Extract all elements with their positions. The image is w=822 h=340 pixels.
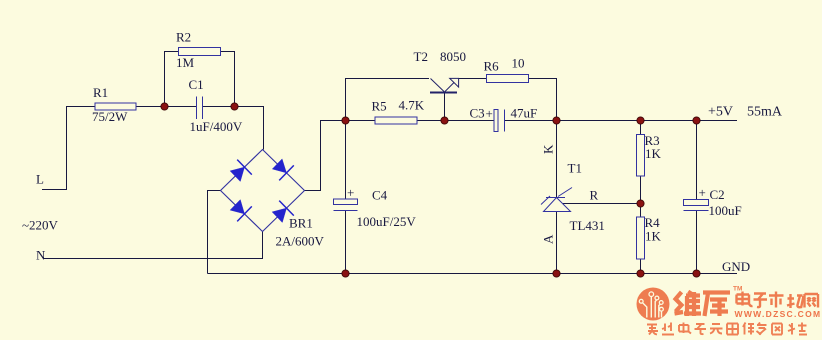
resistor R5 bbox=[375, 117, 417, 124]
svg-text:C2: C2 bbox=[710, 187, 725, 202]
watermark slogan char yi bbox=[772, 324, 782, 335]
TL431 T1 cathode bar bbox=[546, 197, 565, 199]
svg-text:+: + bbox=[486, 106, 493, 121]
wire TL431 ref to divider node bbox=[563, 203, 641, 205]
svg-text:+: + bbox=[699, 185, 706, 200]
watermark slogan char zi bbox=[695, 324, 707, 334]
svg-text:100uF: 100uF bbox=[709, 203, 742, 218]
svg-text:C4: C4 bbox=[372, 188, 388, 203]
diode D1 upper-left bbox=[230, 160, 252, 182]
resistor R4 bbox=[637, 217, 645, 259]
svg-text:R1: R1 bbox=[93, 85, 108, 100]
wire C4 bottom lead bbox=[345, 211, 347, 274]
svg-text:WWW.DZSC.COM: WWW.DZSC.COM bbox=[735, 309, 822, 319]
wire emitter to R6 bbox=[459, 78, 487, 80]
svg-text:100uF/25V: 100uF/25V bbox=[357, 214, 417, 229]
svg-text:GND: GND bbox=[722, 259, 750, 274]
transistor T2 collector diagonal bbox=[431, 79, 445, 92]
wire bridge right vertex to plus node bbox=[305, 121, 346, 191]
svg-text:1K: 1K bbox=[645, 229, 662, 244]
svg-text:TM: TM bbox=[733, 286, 742, 293]
svg-text:TL431: TL431 bbox=[570, 218, 605, 233]
watermark slogan char ye bbox=[662, 323, 674, 335]
wire output rail to +5V bbox=[557, 120, 738, 122]
svg-text:1K: 1K bbox=[645, 146, 662, 161]
transistor T2 emitter arrow open bbox=[450, 78, 459, 87]
svg-text:K: K bbox=[541, 144, 556, 154]
wire R5 to base node to C3 bbox=[417, 120, 494, 122]
watermark chang glyph bbox=[787, 294, 804, 308]
svg-text:A: A bbox=[541, 234, 556, 244]
watermark slogan char jiao bbox=[757, 323, 767, 335]
svg-text:T2: T2 bbox=[414, 49, 428, 64]
watermark ku glyph bbox=[703, 293, 730, 317]
svg-text:N: N bbox=[36, 248, 46, 263]
wire C2 bottom lead bbox=[696, 211, 698, 274]
capacitor C3 plate right bbox=[504, 110, 506, 132]
svg-text:~220V: ~220V bbox=[22, 218, 59, 233]
svg-text:BR1: BR1 bbox=[289, 216, 313, 231]
wire L stub bbox=[42, 107, 95, 190]
svg-text:R6: R6 bbox=[484, 59, 500, 74]
svg-text:L: L bbox=[36, 172, 44, 187]
wire R6 to output node bbox=[529, 79, 557, 121]
wire N to bridge bottom vertex bbox=[44, 232, 263, 259]
node dot C2 bottom bbox=[693, 270, 700, 277]
node dot C4 bottom bbox=[342, 270, 349, 277]
svg-text:1uF/400V: 1uF/400V bbox=[190, 119, 243, 134]
wire plus node up to T2 collector bbox=[346, 79, 430, 121]
watermark slogan char qi bbox=[727, 324, 738, 335]
svg-text:R: R bbox=[590, 188, 599, 203]
capacitor C1 plate left bbox=[196, 97, 198, 120]
watermark wang glyph bbox=[805, 294, 819, 308]
watermark dian glyph bbox=[737, 292, 753, 307]
svg-text:T1: T1 bbox=[568, 161, 582, 176]
wire C2 top lead bbox=[696, 121, 698, 200]
node dot R3 R4 ref bbox=[637, 200, 644, 207]
svg-text:C1: C1 bbox=[189, 77, 204, 92]
watermark slogan char wang bbox=[788, 323, 795, 335]
capacitor C1 plate right bbox=[202, 97, 204, 120]
wire ground bus bbox=[208, 273, 738, 275]
watermark slogan char zhuan bbox=[647, 325, 658, 335]
svg-text:75/2W: 75/2W bbox=[92, 109, 128, 124]
svg-text:47uF: 47uF bbox=[511, 106, 538, 121]
watermark wei glyph bbox=[675, 291, 702, 316]
wire R3 top lead bbox=[640, 121, 642, 135]
diode D3 lower-left bbox=[230, 200, 252, 222]
wire R4 bottom lead bbox=[640, 259, 642, 274]
wire node A up to R2 bbox=[165, 52, 179, 107]
wire R1 to node A bbox=[136, 106, 196, 108]
resistor R1 bbox=[95, 103, 136, 110]
wire R3 bottom lead bbox=[640, 176, 642, 204]
resistor R6 bbox=[487, 75, 529, 83]
node dot R1 R2 C1 bbox=[161, 103, 168, 110]
wire bridge left vertex to ground bus bbox=[208, 191, 221, 274]
svg-text:+5V: +5V bbox=[708, 105, 733, 120]
transistor T2 base bar bbox=[430, 92, 457, 94]
svg-text:10: 10 bbox=[512, 56, 525, 71]
watermark zi glyph bbox=[754, 294, 768, 308]
svg-text:8050: 8050 bbox=[440, 49, 466, 64]
wire R5 left lead bbox=[346, 120, 376, 122]
wire T2 base lead bbox=[444, 93, 446, 121]
wire R2 right down to node B bbox=[221, 52, 235, 107]
transistor T2 emitter diagonal bbox=[445, 83, 455, 93]
node dot R4 bottom bbox=[637, 270, 644, 277]
node dot C3 R6 K rail bbox=[553, 117, 560, 124]
wire C1 to node B to bridge top bbox=[203, 107, 264, 150]
capacitor C3 plate left box bbox=[494, 110, 498, 132]
resistor R2 bbox=[179, 48, 221, 56]
bridge BR1 diamond edges bbox=[221, 150, 305, 232]
capacitor C2 plate bottom bbox=[684, 210, 709, 212]
capacitor C4 plate top box bbox=[334, 199, 358, 205]
watermark slogan char dian bbox=[679, 323, 691, 334]
TL431 T1 triangle bbox=[544, 198, 571, 212]
diode D4 lower-right bbox=[272, 201, 294, 223]
TL431 T1 bar tick right bbox=[558, 188, 572, 197]
wire C4 top lead bbox=[345, 121, 347, 200]
watermark logo circle bbox=[637, 288, 670, 321]
svg-text:1M: 1M bbox=[176, 55, 195, 70]
watermark shi glyph bbox=[769, 292, 784, 308]
node dot bridge plus C4 R5 bbox=[342, 117, 349, 124]
capacitor C2 plate top box bbox=[684, 200, 709, 206]
node dot C2 top bbox=[693, 117, 700, 124]
wire C3 to output node bbox=[505, 120, 557, 122]
node dot R3 top bbox=[637, 117, 644, 124]
wire R4 top lead bbox=[640, 204, 642, 218]
resistor R3 bbox=[637, 135, 645, 177]
svg-text:4.7K: 4.7K bbox=[399, 98, 425, 113]
diode D2 upper-right bbox=[272, 159, 294, 181]
watermark slogan char yuan bbox=[710, 324, 723, 334]
svg-text:C3: C3 bbox=[470, 106, 485, 121]
watermark slogan char zhan bbox=[798, 323, 807, 335]
node dot TL431 anode bottom bbox=[553, 270, 560, 277]
svg-text:R2: R2 bbox=[176, 30, 191, 45]
svg-text:R5: R5 bbox=[372, 99, 387, 114]
TL431 T1 bar tick left bbox=[541, 196, 550, 205]
svg-text:+: + bbox=[347, 185, 354, 200]
wire TL431 anode lead bbox=[556, 212, 558, 274]
node dot R5 T2base C3 bbox=[441, 117, 448, 124]
capacitor C4 plate bottom bbox=[334, 210, 358, 212]
svg-text:55mA: 55mA bbox=[747, 105, 783, 120]
node dot C1 R2 bridge top bbox=[231, 103, 238, 110]
watermark slogan char jian bbox=[743, 323, 754, 335]
svg-text:2A/600V: 2A/600V bbox=[276, 234, 325, 249]
wire TL431 cathode lead bbox=[556, 121, 558, 198]
